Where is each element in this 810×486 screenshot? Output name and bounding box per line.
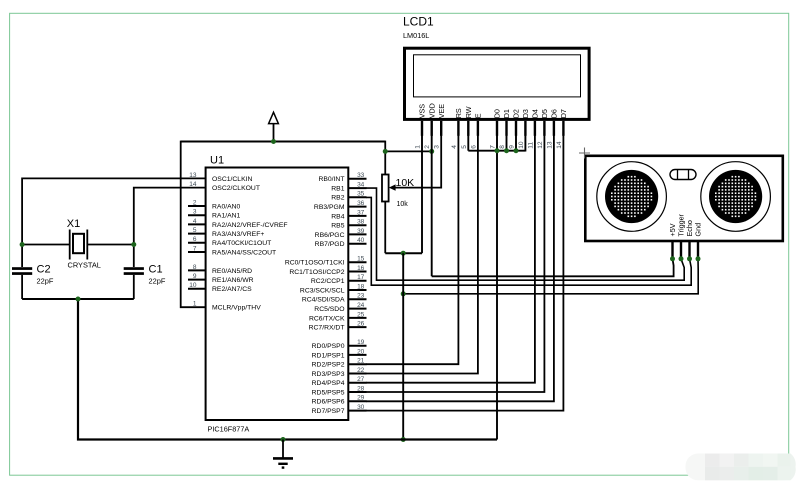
wire VCC power rail — [181, 141, 386, 143]
svg-text:RD5/PSP5: RD5/PSP5 — [312, 389, 345, 396]
svg-text:13: 13 — [189, 172, 197, 179]
svg-text:7: 7 — [193, 245, 197, 252]
U1 pin 38 RB5 — [331, 219, 366, 230]
junction ground tap — [401, 291, 406, 296]
U1 pin 17 RC2/CCP1 — [311, 274, 367, 285]
svg-text:RC5/SDO: RC5/SDO — [314, 306, 344, 313]
LCD pin 1 VSS — [415, 104, 427, 149]
svg-text:17: 17 — [357, 274, 365, 281]
svg-text:23: 23 — [357, 293, 365, 300]
U1 pin 23 RC4/SDI/SDA — [302, 293, 367, 304]
U1 pin 10 RE2/AN7/CS — [188, 282, 252, 293]
wire ground rail — [78, 299, 497, 440]
U1 pin 39 RB6/PGC — [315, 228, 367, 239]
U1 pin 27 RD4/PSP4 — [312, 376, 367, 387]
wire D1 stub drop — [506, 135, 508, 151]
junction ground symbol tap — [281, 437, 286, 442]
wire RD7 to LCD D7 — [366, 135, 563, 411]
svg-text:34: 34 — [357, 182, 365, 189]
svg-text:2: 2 — [424, 145, 431, 149]
LCD pin 4 RS — [451, 108, 463, 149]
svg-text:LM016L: LM016L — [403, 31, 429, 40]
svg-text:Gnd: Gnd — [694, 223, 703, 237]
wire jog to VDD column — [385, 150, 431, 152]
U1 pin 14 OSC2/CLKOUT — [189, 181, 260, 192]
svg-text:40: 40 — [357, 237, 365, 244]
U1 pin 16 RC1/T1OSI/CCP2 — [289, 265, 366, 276]
LCD pin 2 VDD — [424, 103, 436, 149]
junction D0 bracket — [495, 148, 500, 153]
junction sensor Gnd — [696, 256, 701, 261]
svg-text:RB1: RB1 — [331, 186, 344, 193]
U1 pin 1 MCLR/Vpp/THV — [193, 301, 261, 312]
sensor pin Trigger — [677, 213, 686, 258]
wire VDD to sensor +5V — [432, 259, 674, 277]
svg-text:RB3/PGM: RB3/PGM — [314, 204, 345, 211]
junction VSS ground drop — [401, 251, 406, 256]
junction sensor +5V — [670, 256, 675, 261]
junction sensor Trigger — [679, 256, 684, 261]
wire pot bottom — [384, 202, 386, 254]
svg-text:RS: RS — [454, 108, 463, 118]
U1 pin 34 RB1 — [331, 182, 366, 193]
svg-text:14: 14 — [556, 141, 563, 149]
wire RD3 to LCD E — [366, 135, 478, 374]
svg-text:3: 3 — [434, 145, 441, 149]
svg-text:PIC16F877A: PIC16F877A — [208, 425, 250, 434]
svg-text:RC0/T1OSO/T1CKI: RC0/T1OSO/T1CKI — [285, 260, 345, 267]
junction crystal right node — [131, 242, 136, 247]
svg-text:4: 4 — [193, 218, 197, 225]
svg-text:11: 11 — [527, 142, 534, 149]
wire OSC1 to crystal — [22, 178, 206, 267]
svg-text:10K: 10K — [396, 177, 415, 189]
capacitor C2 — [12, 267, 32, 275]
wire RD5 to LCD D5 — [366, 135, 544, 392]
svg-text:12: 12 — [537, 141, 544, 149]
svg-text:4: 4 — [451, 145, 458, 149]
svg-text:16: 16 — [357, 265, 365, 272]
junction sensor Echo — [687, 256, 692, 261]
svg-text:RB5: RB5 — [331, 223, 344, 230]
LCD pin 7 D0 — [490, 109, 502, 149]
wire ground vertical — [402, 253, 404, 439]
wire C2 bottom lead — [21, 275, 23, 299]
wire pot bottom to VSS — [385, 252, 422, 254]
U1 pin 2 RA0/AN0 — [188, 199, 241, 210]
svg-text:RD3/PSP3: RD3/PSP3 — [312, 371, 345, 378]
svg-text:RB2: RB2 — [331, 195, 344, 202]
pot wiper arrow — [389, 184, 396, 190]
U1 pin 8 RE0/AN5/RD — [188, 264, 252, 275]
power +5V symbol — [269, 112, 279, 123]
U1 pin 7 RA5/AN4/SS/C2OUT — [188, 245, 276, 256]
svg-text:25: 25 — [357, 311, 365, 318]
U1 pin 19 RD0/PSP0 — [312, 339, 367, 350]
svg-text:RC3/SCK/SCL: RC3/SCK/SCL — [300, 287, 345, 294]
wire crystal left lead — [22, 244, 70, 246]
svg-text:RC6/TX/CK: RC6/TX/CK — [309, 315, 345, 322]
svg-text:21: 21 — [357, 358, 365, 365]
ultrasonic sensor HC-SR04 — [585, 156, 783, 241]
U1 pin 18 RC3/SCK/SCL — [300, 283, 367, 294]
wire D0 column to ground — [496, 135, 498, 440]
U1 pin 36 RB3/PGM — [314, 200, 367, 211]
LCD pin 12 D5 — [537, 109, 549, 149]
wire power arrow stem — [273, 123, 275, 142]
junction pot top — [383, 149, 388, 154]
svg-text:33: 33 — [357, 172, 365, 179]
svg-text:9: 9 — [509, 145, 516, 149]
svg-text:RD7/PSP7: RD7/PSP7 — [312, 408, 345, 415]
svg-text:2: 2 — [193, 199, 197, 206]
svg-text:8: 8 — [193, 264, 197, 271]
svg-text:8: 8 — [499, 145, 506, 149]
U1 pin 22 RD3/PSP3 — [312, 367, 367, 378]
svg-text:D3: D3 — [521, 109, 530, 118]
svg-text:RE2/AN7/CS: RE2/AN7/CS — [212, 286, 252, 293]
wire RW stub drop — [467, 135, 469, 151]
svg-text:35: 35 — [357, 191, 365, 198]
svg-text:37: 37 — [357, 209, 365, 216]
sensor pin Gnd — [694, 223, 703, 259]
U1 pin 20 RD1/PSP1 — [312, 348, 367, 359]
ground — [273, 440, 293, 468]
svg-text:RD2/PSP2: RD2/PSP2 — [312, 362, 345, 369]
sensor left transducer — [597, 162, 667, 232]
svg-text:E: E — [474, 113, 483, 118]
svg-text:D1: D1 — [502, 109, 511, 118]
svg-text:18: 18 — [357, 283, 365, 290]
U1 pin 21 RD2/PSP2 — [312, 358, 367, 369]
svg-text:7: 7 — [490, 145, 497, 149]
svg-text:RC2/CCP1: RC2/CCP1 — [311, 278, 345, 285]
U1 pin 3 RA1/AN1 — [188, 209, 241, 220]
sensor oscillator can — [670, 170, 696, 180]
wire VSS column — [421, 135, 423, 253]
svg-text:LCD1: LCD1 — [403, 15, 434, 29]
svg-text:RB0/INT: RB0/INT — [318, 176, 344, 183]
junction ground rail — [401, 437, 406, 442]
sensor alignment cross — [579, 148, 590, 159]
svg-text:RC7/RX/DT: RC7/RX/DT — [309, 325, 345, 332]
svg-text:D0: D0 — [493, 109, 502, 118]
svg-text:X1: X1 — [67, 218, 80, 230]
svg-text:RA3/AN3/VREF+: RA3/AN3/VREF+ — [212, 231, 264, 238]
svg-text:RE1/AN6/WR: RE1/AN6/WR — [212, 277, 254, 284]
LCD pin 8 D1 — [499, 109, 511, 149]
svg-text:10k: 10k — [397, 201, 409, 208]
svg-text:22pF: 22pF — [37, 277, 54, 286]
U1 pin 33 RB0/INT — [318, 172, 366, 183]
wire C1 bottom lead — [133, 275, 135, 299]
LCD pin 14 D7 — [556, 109, 568, 149]
svg-text:RD0/PSP0: RD0/PSP0 — [312, 343, 345, 350]
svg-text:10: 10 — [189, 282, 197, 289]
LCD screen area — [414, 55, 581, 97]
U1 pin 4 RA2/AN2/VREF-/CVREF — [188, 218, 288, 229]
svg-text:15: 15 — [357, 256, 365, 263]
LCD pin 5 RW — [461, 106, 473, 149]
svg-text:26: 26 — [357, 321, 365, 328]
U1 pin 35 RB2 — [331, 191, 366, 202]
svg-text:1: 1 — [193, 301, 197, 308]
potentiometer 10K — [382, 175, 389, 202]
svg-text:VSS: VSS — [418, 104, 427, 119]
U1 pin 29 RD6/PSP6 — [312, 395, 367, 406]
LCD pin 11 D4 — [527, 109, 539, 149]
svg-text:13: 13 — [546, 141, 553, 149]
wire VDD column down — [431, 135, 433, 276]
wire rail jog to pot top — [384, 141, 386, 175]
svg-text:RA1/AN1: RA1/AN1 — [212, 213, 241, 220]
junction VDD column — [429, 149, 434, 154]
sensor pin +5V — [668, 223, 677, 258]
svg-text:5: 5 — [193, 227, 197, 234]
junction on power rail — [271, 139, 276, 144]
svg-text:VDD: VDD — [427, 103, 436, 118]
svg-text:RA2/AN2/VREF-/CVREF: RA2/AN2/VREF-/CVREF — [212, 222, 288, 229]
svg-text:D6: D6 — [550, 109, 559, 118]
svg-text:6: 6 — [470, 145, 477, 149]
wire RD6 to LCD D6 — [366, 135, 554, 401]
svg-text:RA5/AN4/SS/C2OUT: RA5/AN4/SS/C2OUT — [212, 249, 276, 256]
LCD display LCD1 LM016L — [405, 48, 590, 119]
svg-text:RB6/PGC: RB6/PGC — [315, 232, 345, 239]
capacitor C1 — [124, 267, 144, 275]
svg-text:RD4/PSP4: RD4/PSP4 — [312, 380, 345, 387]
svg-text:5: 5 — [461, 145, 468, 149]
wire RD2 to LCD RS — [366, 135, 458, 364]
svg-text:RC4/SDI/SDA: RC4/SDI/SDA — [302, 297, 345, 304]
wire VEE to pot wiper — [396, 135, 442, 188]
svg-text:19: 19 — [357, 339, 365, 346]
microcontroller U1 PIC16F877A — [206, 168, 349, 421]
svg-text:RE0/AN5/RD: RE0/AN5/RD — [212, 268, 252, 275]
svg-text:OSC2/CLKOUT: OSC2/CLKOUT — [212, 185, 260, 192]
svg-text:RB7/PGD: RB7/PGD — [315, 241, 345, 248]
svg-text:1: 1 — [415, 145, 422, 149]
svg-text:38: 38 — [357, 219, 365, 226]
svg-text:U1: U1 — [210, 155, 224, 167]
svg-text:RW: RW — [464, 106, 473, 118]
svg-text:D2: D2 — [512, 109, 521, 118]
svg-text:D7: D7 — [559, 109, 568, 118]
U1 pin 24 RC5/SDO — [314, 302, 366, 313]
svg-text:9: 9 — [193, 273, 197, 280]
svg-text:28: 28 — [357, 385, 365, 392]
sensor pin Echo — [685, 220, 694, 259]
U1 pin 28 RD5/PSP5 — [312, 385, 367, 396]
wire crystal right lead — [87, 244, 134, 246]
svg-text:39: 39 — [357, 228, 365, 235]
U1 pin 15 RC0/T1OSO/T1CKI — [285, 256, 367, 267]
crystal X1 — [70, 230, 88, 260]
wire D3 stub drop — [524, 135, 526, 152]
wire VCC to MCLR — [181, 141, 206, 308]
U1 pin 13 OSC1/CLKIN — [189, 172, 252, 183]
sensor right transducer — [701, 162, 771, 232]
svg-text:RA4/T0CKI/C1OUT: RA4/T0CKI/C1OUT — [212, 240, 271, 247]
U1 pin 30 RD7/PSP7 — [312, 404, 367, 415]
junction crystal left node — [20, 242, 25, 247]
U1 pin 5 RA3/AN3/VREF+ — [188, 227, 264, 238]
U1 pin 26 RC7/RX/DT — [309, 321, 367, 332]
junction bottom bus — [76, 297, 81, 302]
svg-text:CRYSTAL: CRYSTAL — [68, 260, 101, 269]
svg-text:RD1/PSP1: RD1/PSP1 — [312, 352, 345, 359]
svg-text:RA0/AN0: RA0/AN0 — [212, 203, 241, 210]
svg-text:C2: C2 — [37, 264, 51, 276]
svg-text:VEE: VEE — [437, 104, 446, 119]
wire RW-D3 ground bracket — [468, 150, 525, 152]
svg-text:3: 3 — [193, 209, 197, 216]
svg-text:14: 14 — [189, 181, 197, 188]
svg-text:D5: D5 — [540, 109, 549, 118]
LCD pin 3 VEE — [434, 104, 446, 149]
svg-text:OSC1/CLKIN: OSC1/CLKIN — [212, 176, 253, 183]
U1 pin 40 RB7/PGD — [315, 237, 367, 248]
svg-text:29: 29 — [357, 395, 365, 402]
svg-text:RD6/PSP6: RD6/PSP6 — [312, 399, 345, 406]
svg-text:36: 36 — [357, 200, 365, 207]
svg-text:20: 20 — [357, 348, 365, 355]
wire OSC2 to crystal — [134, 188, 206, 267]
LCD pin 6 E — [470, 113, 482, 149]
svg-text:24: 24 — [357, 302, 365, 309]
LCD pin 13 D6 — [546, 109, 558, 149]
wire capacitors bottom bus — [22, 298, 134, 300]
wire RD4 to LCD D4 — [366, 135, 535, 383]
U1 pin 6 RA4/T0CKI/C1OUT — [188, 236, 271, 247]
svg-text:D4: D4 — [531, 109, 540, 118]
U1 pin 37 RB4 — [331, 209, 366, 220]
svg-text:30: 30 — [357, 404, 365, 411]
svg-text:RC1/T1OSI/CCP2: RC1/T1OSI/CCP2 — [289, 269, 344, 276]
svg-text:RB4: RB4 — [331, 213, 344, 220]
svg-text:10: 10 — [518, 141, 525, 149]
svg-text:C1: C1 — [149, 264, 163, 276]
svg-text:27: 27 — [357, 376, 365, 383]
svg-text:MCLR/Vpp/THV: MCLR/Vpp/THV — [212, 305, 261, 312]
wire RB2 to sensor Echo — [366, 197, 691, 285]
svg-text:22: 22 — [357, 367, 365, 374]
LCD pin 10 D3 — [518, 109, 530, 149]
wire RB1 to sensor Trigger — [366, 188, 684, 280]
U1 pin 9 RE1/AN6/WR — [188, 273, 254, 284]
wire D2 stub drop — [515, 135, 517, 151]
U1 pin 25 RC6/TX/CK — [309, 311, 367, 322]
junction D2 bracket — [514, 148, 519, 153]
junction D1 bracket — [504, 148, 509, 153]
svg-text:6: 6 — [193, 236, 197, 243]
wire ground to sensor Gnd — [403, 259, 698, 294]
svg-text:22pF: 22pF — [149, 277, 166, 286]
LCD pin 9 D2 — [509, 109, 521, 149]
